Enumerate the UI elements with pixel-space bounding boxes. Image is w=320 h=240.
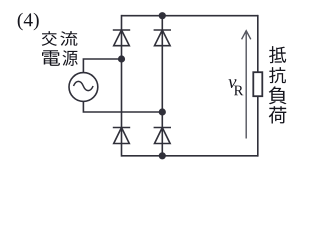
diode D2 <box>154 30 171 46</box>
junction dot top bus / right rail <box>159 12 166 19</box>
node B junction dot (source to right rail) <box>159 108 166 115</box>
wire top bus (cathode output) <box>122 15 258 17</box>
AC source sine wave <box>74 81 94 90</box>
label 交流電源 (AC source) <box>42 31 78 66</box>
wire load branch <box>257 15 259 157</box>
label 抵抗負荷 (resistive load) <box>269 46 287 123</box>
wire source top lead to node A <box>83 59 121 73</box>
vR reference arrow <box>242 31 251 139</box>
diode D1 <box>113 30 130 46</box>
diode D3 <box>113 128 130 144</box>
wire right bridge rail <box>161 15 163 157</box>
label (4) <box>18 13 39 31</box>
AC source G1 circle <box>69 73 98 102</box>
label vR (voltage across load) <box>228 79 243 95</box>
wire left bridge rail <box>121 15 123 157</box>
node A junction dot (source to left rail) <box>118 55 125 62</box>
diode D4 <box>154 128 171 144</box>
wire source bottom lead to node B <box>83 101 162 112</box>
resistor R (load) <box>253 72 262 96</box>
wire bottom bus (anode return) <box>122 155 258 157</box>
junction dot bottom bus / right rail <box>159 152 166 159</box>
